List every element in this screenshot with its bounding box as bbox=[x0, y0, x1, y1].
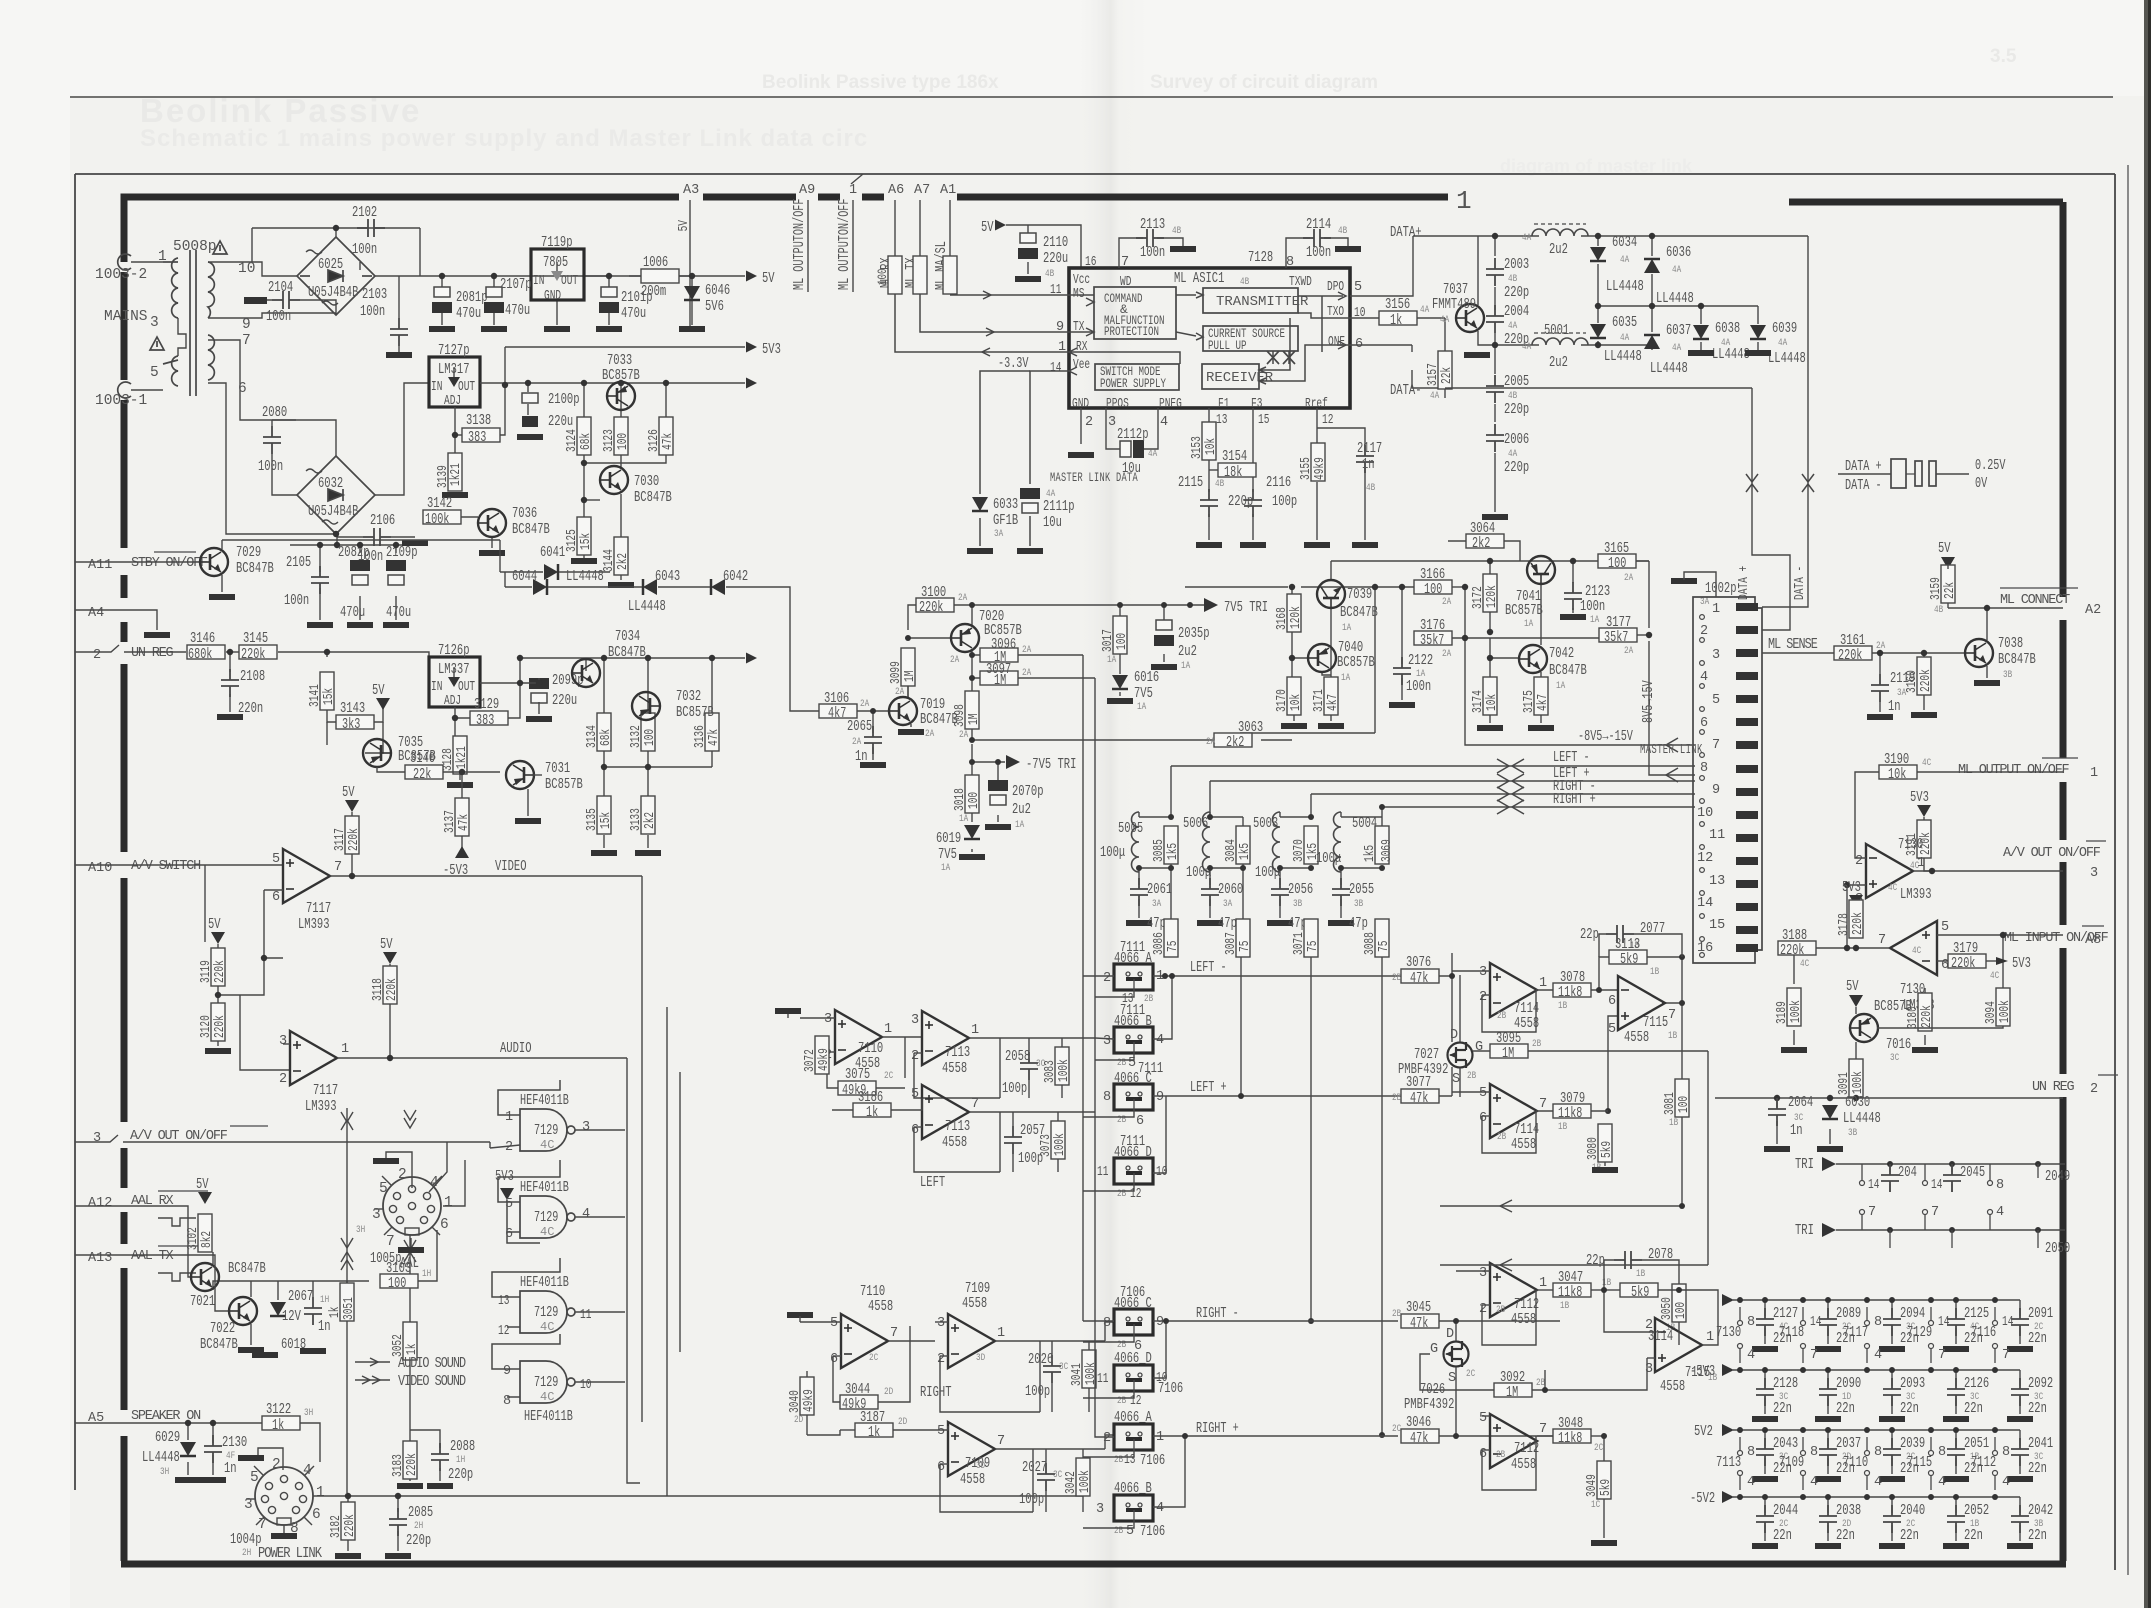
svg-text:6037: 6037 bbox=[1666, 322, 1691, 339]
resistor 3102 bbox=[198, 1214, 212, 1252]
capacitor 2082p bbox=[350, 560, 370, 585]
resistor 3047 bbox=[1553, 1283, 1591, 1297]
svg-text:4A: 4A bbox=[1620, 255, 1629, 266]
HEF4011B gate 4 (7129) bbox=[520, 1361, 575, 1403]
svg-text:5V: 5V bbox=[981, 219, 994, 236]
svg-text:2088: 2088 bbox=[450, 1438, 475, 1455]
resistor 3044 bbox=[840, 1395, 878, 1409]
svg-text:2H: 2H bbox=[242, 1548, 251, 1559]
resistor 3190 / ML OUTPUT row bbox=[1879, 765, 1917, 779]
svg-text:BC847B: BC847B bbox=[1998, 651, 2036, 668]
svg-text:2042: 2042 bbox=[2028, 1502, 2053, 1519]
svg-text:4558: 4558 bbox=[1660, 1378, 1685, 1395]
svg-text:2070p: 2070p bbox=[1012, 783, 1044, 800]
svg-text:6: 6 bbox=[911, 1123, 919, 1138]
svg-text:10k: 10k bbox=[1289, 694, 1304, 711]
svg-text:6032: 6032 bbox=[318, 475, 343, 492]
IC 7115 supply pins bbox=[1928, 1427, 1934, 1433]
svg-text:2k2: 2k2 bbox=[1472, 536, 1490, 552]
svg-text:2037: 2037 bbox=[1836, 1435, 1861, 1452]
resistor 3145 bbox=[239, 645, 277, 659]
capacitor 2127 bbox=[1764, 1300, 1766, 1316]
wire A1 / ML MA/SL + resistor 3150 bbox=[949, 200, 951, 258]
svg-text:1006: 1006 bbox=[643, 254, 668, 271]
svg-text:2u2: 2u2 bbox=[1012, 801, 1031, 818]
svg-text:3: 3 bbox=[244, 1497, 253, 1513]
svg-text:7030: 7030 bbox=[634, 473, 659, 490]
svg-text:100n: 100n bbox=[1406, 678, 1431, 695]
svg-text:7110: 7110 bbox=[1843, 1454, 1868, 1471]
resistor 3049 bbox=[1597, 1461, 1611, 1499]
IC 7128 ML ASIC1 box bbox=[1069, 268, 1350, 408]
svg-text:220u: 220u bbox=[552, 692, 577, 709]
svg-text:1B: 1B bbox=[1650, 967, 1659, 978]
svg-text:1B: 1B bbox=[1668, 1031, 1677, 1042]
svg-text:1B: 1B bbox=[1560, 1301, 1569, 1312]
svg-text:STBY ON/OFF: STBY ON/OFF bbox=[131, 556, 208, 571]
svg-text:220u: 220u bbox=[1043, 250, 1068, 267]
svg-text:3166: 3166 bbox=[1420, 566, 1445, 583]
regulator LM317 (7127p) bbox=[429, 357, 480, 407]
svg-text:220k: 220k bbox=[241, 647, 265, 663]
svg-text:75: 75 bbox=[1166, 941, 1181, 952]
svg-text:3189: 3189 bbox=[1775, 1001, 1790, 1024]
svg-text:LL4448: LL4448 bbox=[566, 568, 604, 585]
svg-text:3041: 3041 bbox=[1070, 1363, 1085, 1386]
svg-text:2D: 2D bbox=[898, 1417, 907, 1428]
svg-text:3117: 3117 bbox=[333, 828, 348, 851]
resistor 3083 bbox=[1055, 1047, 1069, 1085]
resistor 3100 bbox=[916, 598, 954, 612]
resistor 3140 bbox=[405, 765, 443, 779]
svg-text:7039: 7039 bbox=[1347, 586, 1372, 603]
svg-text:3155: 3155 bbox=[1299, 457, 1314, 480]
zener 6018 bbox=[270, 1302, 286, 1316]
svg-text:100: 100 bbox=[1115, 633, 1130, 650]
svg-text:220p: 220p bbox=[406, 1532, 431, 1549]
svg-text:9: 9 bbox=[242, 317, 251, 333]
svg-text:1: 1 bbox=[158, 249, 167, 265]
svg-text:PROTECTION: PROTECTION bbox=[1104, 324, 1159, 339]
svg-text:2109p: 2109p bbox=[386, 544, 418, 561]
diode 6037 bbox=[1644, 335, 1660, 349]
IC 7113 supply pins bbox=[1737, 1427, 1743, 1433]
resistor 3171 bbox=[1324, 677, 1338, 715]
IC 7110 supply pins bbox=[1864, 1427, 1870, 1433]
svg-text:MASTER LINK: MASTER LINK bbox=[1640, 743, 1703, 758]
svg-text:7: 7 bbox=[1868, 1205, 1876, 1220]
svg-text:ADJ: ADJ bbox=[444, 394, 461, 409]
svg-text:3094: 3094 bbox=[1984, 1001, 1999, 1024]
svg-text:383: 383 bbox=[476, 713, 494, 729]
MAIN-INK6 bbox=[1171, 520, 1838, 963]
wires LM317 out bbox=[455, 347, 745, 580]
svg-text:BC847B: BC847B bbox=[1549, 662, 1587, 679]
capacitor 2106 bbox=[363, 528, 391, 546]
svg-text:MAINS: MAINS bbox=[104, 309, 148, 325]
svg-text:2107p: 2107p bbox=[500, 276, 532, 293]
svg-text:PMBF4392: PMBF4392 bbox=[1398, 1061, 1448, 1078]
svg-text:3B: 3B bbox=[1354, 899, 1363, 910]
svg-text:5: 5 bbox=[1608, 1022, 1616, 1037]
svg-text:3k3: 3k3 bbox=[342, 717, 360, 733]
svg-text:2027: 2027 bbox=[1022, 1459, 1047, 1476]
svg-text:8: 8 bbox=[1938, 1445, 1946, 1460]
ML SENSE row bbox=[1762, 652, 1838, 654]
svg-text:4558: 4558 bbox=[942, 1134, 967, 1151]
svg-text:OUT: OUT bbox=[458, 680, 475, 695]
svg-text:3170: 3170 bbox=[1275, 689, 1290, 712]
capacitor 2037 bbox=[1827, 1430, 1829, 1446]
svg-text:100: 100 bbox=[875, 269, 890, 286]
svg-text:9: 9 bbox=[1712, 783, 1720, 798]
svg-text:RX: RX bbox=[1076, 340, 1087, 355]
resistor 1006 bbox=[641, 269, 679, 283]
svg-text:1A: 1A bbox=[1524, 619, 1533, 630]
svg-text:7129: 7129 bbox=[534, 1305, 558, 1321]
svg-text:3161: 3161 bbox=[1840, 632, 1865, 649]
capacitor 2111p bbox=[1020, 488, 1040, 513]
svg-text:100k: 100k bbox=[1789, 1000, 1804, 1023]
svg-text:22n: 22n bbox=[1900, 1527, 1919, 1544]
svg-text:LL4448: LL4448 bbox=[1604, 348, 1642, 365]
svg-text:3B: 3B bbox=[1293, 899, 1302, 910]
svg-text:5V3: 5V3 bbox=[1842, 879, 1861, 896]
svg-text:2003: 2003 bbox=[1504, 256, 1529, 273]
capacitor 2130 bbox=[204, 1435, 222, 1463]
svg-text:35k7: 35k7 bbox=[1604, 630, 1628, 646]
svg-text:LL4448: LL4448 bbox=[1650, 360, 1688, 377]
7106 chain wires bbox=[1083, 1309, 1560, 1528]
svg-text:5k9: 5k9 bbox=[1620, 952, 1638, 968]
wire A6 / ML RX + resistor 3152 bbox=[894, 200, 896, 258]
svg-text:100: 100 bbox=[1424, 582, 1442, 598]
svg-text:200m: 200m bbox=[641, 283, 666, 300]
svg-text:100n: 100n bbox=[258, 458, 283, 475]
svg-text:A13: A13 bbox=[88, 1251, 112, 1266]
svg-text:3048: 3048 bbox=[1558, 1415, 1583, 1432]
diode 6042 bbox=[711, 579, 725, 595]
power 5V down arrow bbox=[376, 698, 390, 710]
power arrow 5V bbox=[746, 271, 757, 282]
resistor 3155 bbox=[1311, 443, 1325, 481]
transistor 7034 bbox=[572, 659, 600, 687]
svg-text:5: 5 bbox=[937, 1424, 945, 1439]
inner block command bbox=[1094, 287, 1176, 339]
wire A7 / ML TX + resistor 3151 bbox=[919, 200, 921, 258]
op-amp 7130 a bbox=[1866, 844, 1913, 898]
svg-text:5: 5 bbox=[1941, 920, 1949, 935]
svg-text:10u: 10u bbox=[1043, 514, 1062, 531]
svg-text:D: D bbox=[1450, 1028, 1458, 1043]
svg-text:AUDIO: AUDIO bbox=[500, 1040, 532, 1057]
resistor 3048 bbox=[1553, 1429, 1591, 1443]
op-amp 7112 a bbox=[1490, 1263, 1537, 1317]
svg-text:3138: 3138 bbox=[466, 412, 491, 429]
svg-text:6: 6 bbox=[830, 1352, 838, 1367]
svg-text:6: 6 bbox=[272, 890, 280, 905]
svg-text:2B: 2B bbox=[1497, 1011, 1506, 1022]
resistor 3143 bbox=[336, 715, 374, 729]
svg-text:2005: 2005 bbox=[1504, 373, 1529, 390]
svg-text:22n: 22n bbox=[2028, 1400, 2047, 1417]
svg-text:7117: 7117 bbox=[1843, 1324, 1868, 1341]
capacitor 2080 bbox=[263, 426, 281, 454]
svg-text:TRI: TRI bbox=[1795, 1222, 1814, 1239]
svg-text:6041: 6041 bbox=[540, 544, 565, 561]
IC 7112 supply pins bbox=[1992, 1427, 1998, 1433]
op-amp 7110 a bbox=[835, 1010, 882, 1064]
svg-text:2039: 2039 bbox=[1900, 1435, 1925, 1452]
svg-text:LM393: LM393 bbox=[1900, 886, 1932, 903]
resistor 3174 bbox=[1483, 677, 1497, 715]
resistor 3091 bbox=[1849, 1059, 1863, 1097]
svg-text:5: 5 bbox=[1712, 693, 1720, 708]
warning triangle 1 bbox=[150, 241, 227, 350]
svg-text:120k: 120k bbox=[1485, 585, 1500, 608]
svg-text:2089: 2089 bbox=[1836, 1305, 1861, 1322]
wire A10 row bbox=[75, 864, 283, 866]
svg-text:BC847B: BC847B bbox=[200, 1336, 238, 1353]
resistor 3182 bbox=[341, 1502, 355, 1540]
svg-text:5: 5 bbox=[1354, 280, 1362, 295]
svg-text:3: 3 bbox=[2090, 866, 2098, 881]
capacitor 2005 bbox=[1486, 375, 1504, 403]
svg-text:A1: A1 bbox=[940, 183, 956, 198]
wire powerlink row bbox=[313, 1468, 1083, 1551]
svg-text:4A: 4A bbox=[1420, 305, 1429, 316]
svg-text:BC857B: BC857B bbox=[1337, 654, 1375, 671]
svg-text:BC847B: BC847B bbox=[1340, 604, 1378, 621]
capacitor 2109p bbox=[386, 560, 406, 585]
svg-text:7805: 7805 bbox=[543, 254, 568, 271]
svg-text:8: 8 bbox=[1874, 1315, 1882, 1330]
svg-text:4A: 4A bbox=[1522, 342, 1531, 353]
svg-text:5V: 5V bbox=[1938, 540, 1951, 557]
svg-text:7: 7 bbox=[2002, 1348, 2010, 1363]
diode 6029 bbox=[180, 1442, 196, 1456]
svg-text:8: 8 bbox=[1103, 1316, 1111, 1331]
capacitor 2093 bbox=[1891, 1370, 1893, 1386]
svg-text:220k: 220k bbox=[343, 1514, 358, 1537]
MAIN-INK4 bbox=[895, 216, 1455, 554]
svg-text:2B: 2B bbox=[1497, 1132, 1506, 1143]
svg-text:2: 2 bbox=[1479, 990, 1487, 1005]
resistor 3172 bbox=[1483, 574, 1497, 612]
svg-text:7116: 7116 bbox=[1971, 1324, 1996, 1341]
transistor 7021 bbox=[191, 1263, 219, 1291]
svg-text:4A: 4A bbox=[1620, 333, 1629, 344]
svg-text:100μ: 100μ bbox=[1100, 844, 1125, 861]
svg-text:5: 5 bbox=[1479, 1086, 1487, 1101]
pin5/10/6 external wires bbox=[1350, 236, 1448, 388]
svg-text:S: S bbox=[1452, 1072, 1460, 1087]
svg-text:22n: 22n bbox=[2028, 1330, 2047, 1347]
svg-text:3042: 3042 bbox=[1064, 1471, 1079, 1494]
svg-text:2055: 2055 bbox=[1349, 881, 1374, 898]
resistor 3183 bbox=[403, 1441, 417, 1479]
svg-text:1003-1: 1003-1 bbox=[95, 393, 147, 409]
svg-text:BC847B: BC847B bbox=[608, 644, 646, 661]
svg-text:ML CONNECT: ML CONNECT bbox=[2000, 593, 2070, 608]
resistor 3142 bbox=[423, 510, 461, 524]
svg-text:4: 4 bbox=[1160, 415, 1168, 430]
svg-text:100n: 100n bbox=[352, 241, 377, 258]
svg-text:7: 7 bbox=[971, 1097, 979, 1112]
capacitor 2004 bbox=[1486, 305, 1504, 333]
svg-text:470u: 470u bbox=[621, 305, 646, 322]
op-amp 7113 a bbox=[922, 1011, 969, 1065]
svg-text:7118: 7118 bbox=[1779, 1324, 1804, 1341]
svg-text:3175: 3175 bbox=[1522, 690, 1537, 713]
svg-text:1n: 1n bbox=[1790, 1122, 1803, 1139]
svg-text:VIDEO: VIDEO bbox=[495, 858, 527, 875]
transistor 7035 bbox=[363, 739, 391, 767]
svg-text:3C: 3C bbox=[1059, 1362, 1068, 1373]
svg-text:3134: 3134 bbox=[585, 725, 600, 748]
svg-text:F1: F1 bbox=[1218, 397, 1229, 412]
svg-text:2099p: 2099p bbox=[552, 672, 584, 689]
svg-text:2104: 2104 bbox=[268, 279, 293, 296]
inner block smps bbox=[1095, 364, 1179, 390]
svg-text:5: 5 bbox=[250, 1470, 259, 1486]
ML SENSE chain: resistor 3161 bbox=[1834, 646, 1872, 660]
2103 drop bbox=[398, 276, 400, 318]
svg-text:2035p: 2035p bbox=[1178, 625, 1210, 642]
long vertical bus wires to 4066 chains bbox=[627, 1007, 680, 1496]
left pin labels bbox=[88, 556, 228, 1426]
svg-text:1: 1 bbox=[971, 1023, 979, 1038]
svg-text:2D: 2D bbox=[794, 1415, 803, 1426]
svg-text:3129: 3129 bbox=[474, 696, 499, 713]
capacitor 2052 bbox=[1955, 1497, 1957, 1513]
svg-text:4558: 4558 bbox=[942, 1060, 967, 1077]
svg-text:3133: 3133 bbox=[629, 808, 644, 831]
resistor 3156 bbox=[1379, 311, 1417, 325]
svg-text:120k: 120k bbox=[1289, 606, 1304, 629]
resistor 3138 bbox=[462, 428, 500, 442]
svg-text:7112: 7112 bbox=[1971, 1454, 1996, 1471]
svg-text:7106: 7106 bbox=[1140, 1452, 1165, 1469]
svg-text:BC847B: BC847B bbox=[228, 1260, 266, 1277]
coil 5000 2u2 top bbox=[1532, 229, 1588, 236]
svg-text:D: D bbox=[1446, 1327, 1454, 1342]
svg-text:14: 14 bbox=[1938, 1315, 1949, 1330]
svg-text:3H: 3H bbox=[304, 1408, 313, 1419]
svg-text:49k9: 49k9 bbox=[1313, 457, 1328, 480]
svg-text:8V5→15V: 8V5→15V bbox=[1641, 680, 1657, 723]
resistor 3078 bbox=[1553, 983, 1591, 997]
svg-text:2A: 2A bbox=[1206, 737, 1215, 748]
bridge rectifier 6025 bbox=[297, 237, 375, 315]
svg-text:100n: 100n bbox=[360, 303, 385, 320]
svg-text:22n: 22n bbox=[1773, 1400, 1792, 1417]
svg-text:2B: 2B bbox=[1392, 1309, 1401, 1320]
svg-text:1: 1 bbox=[1712, 602, 1720, 617]
svg-text:3085: 3085 bbox=[1152, 839, 1167, 862]
svg-text:12: 12 bbox=[1697, 851, 1713, 866]
svg-text:2094: 2094 bbox=[1900, 1305, 1925, 1322]
MAIN-INK9 bbox=[775, 766, 1455, 1438]
transistor 7029 bbox=[200, 548, 228, 576]
svg-text:2: 2 bbox=[2090, 1082, 2098, 1097]
resistor 3076 bbox=[1401, 969, 1439, 983]
svg-text:100k: 100k bbox=[1851, 1071, 1866, 1094]
svg-text:8: 8 bbox=[1996, 1178, 2004, 1193]
regulator 7805 (7119p) bbox=[531, 249, 584, 300]
capacitor 2040 bbox=[1891, 1497, 1893, 1513]
svg-text:4C: 4C bbox=[1912, 946, 1921, 957]
svg-text:2H: 2H bbox=[414, 1521, 423, 1532]
svg-text:7032: 7032 bbox=[676, 688, 701, 705]
svg-text:3122: 3122 bbox=[266, 1401, 291, 1418]
svg-text:2117: 2117 bbox=[1357, 440, 1382, 457]
svg-text:Schematic 1 mains power sup: Schematic 1 mains power supply and Maste… bbox=[140, 125, 868, 152]
svg-text:3084: 3084 bbox=[1224, 839, 1239, 862]
svg-text:LEFT -: LEFT - bbox=[1553, 750, 1590, 766]
top bus left segment with corner at 124,197 bbox=[124, 197, 679, 262]
svg-text:2A: 2A bbox=[1624, 646, 1633, 657]
diode 6044 bbox=[533, 579, 547, 595]
wire A/V OUT row bbox=[75, 1135, 490, 1148]
svg-text:6019: 6019 bbox=[936, 830, 961, 847]
wire A5 row bbox=[75, 1423, 320, 1475]
svg-text:3078: 3078 bbox=[1560, 969, 1585, 986]
svg-text:2056: 2056 bbox=[1288, 881, 1313, 898]
svg-text:AUDIO SOUND: AUDIO SOUND bbox=[398, 1356, 466, 1372]
svg-text:2: 2 bbox=[937, 1352, 945, 1367]
svg-text:2045: 2045 bbox=[1960, 1164, 1985, 1181]
204 / 2045 / 2049 decoupling caps bbox=[1861, 1164, 1863, 1180]
svg-text:5: 5 bbox=[505, 1197, 513, 1212]
2106 line bbox=[337, 536, 363, 538]
ground above AAL bbox=[373, 1158, 399, 1164]
svg-text:4A: 4A bbox=[1430, 391, 1439, 402]
power rail row bbox=[1733, 1299, 2020, 1301]
svg-text:3063: 3063 bbox=[1238, 719, 1263, 736]
svg-text:11k8: 11k8 bbox=[1558, 1431, 1582, 1447]
transformer 1003 bbox=[118, 250, 215, 398]
regulator LM337 (7126p) bbox=[429, 657, 480, 707]
svg-text:4: 4 bbox=[1874, 1348, 1882, 1363]
svg-text:75: 75 bbox=[1238, 941, 1253, 952]
svg-text:A8: A8 bbox=[2085, 933, 2101, 948]
svg-text:GND: GND bbox=[544, 289, 561, 304]
svg-text:3072: 3072 bbox=[803, 1049, 818, 1072]
svg-text:4: 4 bbox=[303, 1463, 312, 1479]
svg-text:2A: 2A bbox=[1022, 645, 1031, 656]
junction dots B2 bbox=[215, 649, 715, 1061]
svg-text:100k: 100k bbox=[1057, 1059, 1072, 1082]
svg-text:2k2: 2k2 bbox=[1226, 735, 1244, 751]
svg-text:2C: 2C bbox=[884, 1071, 893, 1082]
svg-text:7022: 7022 bbox=[210, 1320, 235, 1337]
svg-text:2106: 2106 bbox=[370, 512, 395, 529]
svg-text:DATA -: DATA - bbox=[1845, 478, 1882, 494]
svg-text:RIGHT: RIGHT bbox=[920, 1384, 952, 1401]
capacitor 2081p bbox=[432, 287, 452, 313]
svg-text:3C: 3C bbox=[1890, 1053, 1899, 1064]
svg-text:2A: 2A bbox=[1442, 649, 1451, 660]
svg-text:5: 5 bbox=[911, 1087, 919, 1102]
svg-text:3141: 3141 bbox=[308, 684, 323, 707]
5V + transistor 7016 bbox=[1849, 995, 1863, 1007]
svg-text:BC847B: BC847B bbox=[634, 489, 672, 506]
svg-text:7119p: 7119p bbox=[541, 234, 573, 251]
capacitor 2116 bbox=[1244, 489, 1262, 517]
bridge 6032 out to LM317 bbox=[375, 383, 429, 495]
svg-text:3156: 3156 bbox=[1385, 296, 1410, 313]
